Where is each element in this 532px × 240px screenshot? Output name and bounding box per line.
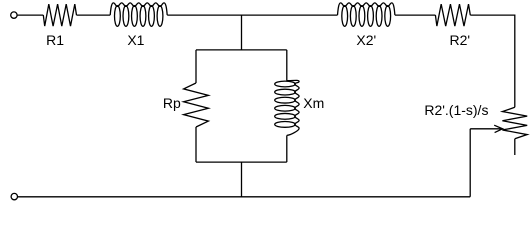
wiper arrow into rheostat — [470, 125, 502, 132]
output terminal bottom-left — [11, 193, 17, 199]
resistor R2' — [435, 4, 470, 26]
wire: wiper feeder down to bottom rail — [469, 129, 471, 197]
wire: top terminal to R1 — [17, 14, 43, 16]
inductor X1 — [110, 3, 167, 26]
inductor X2' — [338, 3, 395, 26]
wire: box bottom edge — [196, 161, 287, 163]
wire: box right upper (to Xm) — [286, 50, 288, 81]
wire: open stub below rheostat — [514, 139, 516, 155]
svg-text:R2': R2' — [450, 32, 471, 48]
inductor Xm — [275, 80, 299, 135]
wire: box left upper (to Rp) — [195, 50, 197, 83]
svg-text:X1: X1 — [127, 32, 144, 48]
svg-text:R2'.(1-s)/s: R2'.(1-s)/s — [424, 102, 488, 118]
rheostat R2'.(1-s)/s (variable resistor) — [502, 107, 527, 139]
svg-text:Rp: Rp — [163, 95, 181, 111]
input terminal top-left — [11, 12, 17, 18]
svg-text:R1: R1 — [46, 32, 64, 48]
resistor Rp — [184, 83, 209, 127]
wire: magnetizing branch down to bottom rail — [241, 162, 243, 197]
svg-text:X2': X2' — [356, 32, 376, 48]
wire: box top edge — [196, 49, 287, 51]
wire: junction to X2' — [242, 14, 338, 16]
wire: R2' to right edge, corner down to rheostat — [470, 15, 515, 107]
wire: X1 to junction node — [167, 14, 241, 16]
wire: box left lower — [195, 127, 197, 162]
node: junction to magnetizing branch — [241, 15, 243, 50]
wire: R1 to X1 — [77, 14, 111, 16]
resistor R1 — [43, 4, 76, 26]
wire: box right lower — [286, 135, 288, 162]
svg-text:Xm: Xm — [303, 95, 324, 111]
wire: X2' to R2' — [395, 14, 436, 16]
wire: bottom rail — [18, 196, 471, 198]
